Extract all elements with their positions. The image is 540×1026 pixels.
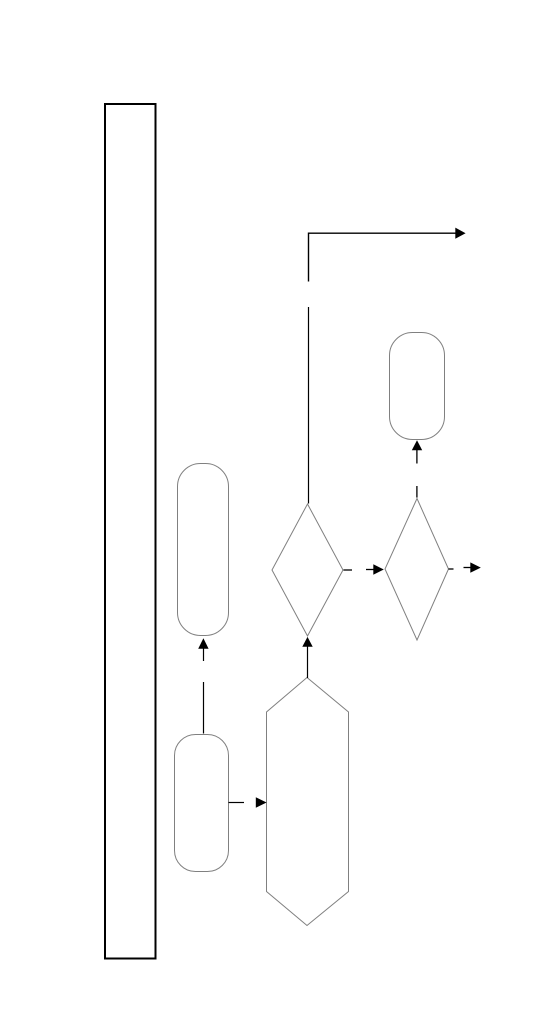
middle decision diamond	[272, 504, 343, 636]
dashed arrow: middle diamond to right diamond	[344, 569, 353, 571]
hexagon	[267, 678, 349, 926]
upper-left stadium	[178, 464, 229, 636]
dashed arrow: right diamond to top-right stadium	[416, 486, 418, 498]
arrow: hexagon to middle diamond	[307, 647, 309, 679]
right decision diamond	[385, 499, 449, 641]
corner connector: wire up-right with arrowhead	[309, 233, 456, 281]
wire: vertical line into middle diamond top	[308, 307, 310, 504]
tall partition rectangle	[105, 104, 156, 959]
arrow: lower stadium to upper stadium (broken line)	[203, 682, 205, 734]
dashed arrow: lower stadium to hexagon	[229, 802, 245, 804]
dashed arrow: right diamond to right edge	[449, 568, 454, 570]
lower-left stadium	[175, 735, 229, 872]
top-right stadium	[390, 333, 445, 440]
